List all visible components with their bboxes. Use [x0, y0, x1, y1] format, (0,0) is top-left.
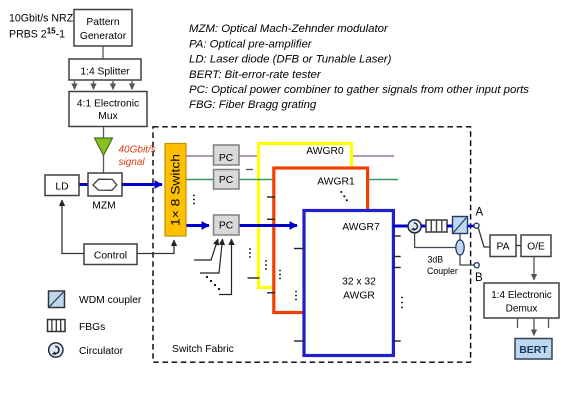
svg-text:PC: Optical power combiner to: PC: Optical power combiner to gather sig… — [189, 84, 529, 96]
switch U1 1x8 — [165, 144, 186, 237]
wire purple from switch through PC to AWGR0 — [186, 155, 394, 157]
svg-text:A: A — [476, 207, 484, 219]
wire green from switch through PC to AWGR1 — [186, 179, 398, 181]
wire control to LD — [62, 200, 84, 254]
wire PA to O/E — [516, 245, 521, 247]
splitter box 1:4 — [69, 59, 141, 80]
svg-text:PA: Optical pre-amplifier: PA: Optical pre-amplifier — [189, 38, 313, 50]
svg-text:PA: PA — [497, 242, 510, 253]
3dB coupler ellipse — [456, 240, 464, 255]
circulator — [408, 220, 421, 233]
wire pattern generator to splitter — [102, 46, 104, 59]
wire O/E to demux (arrow) — [533, 257, 535, 281]
AWGR0 box — [259, 144, 352, 288]
input ticks on AWGR7 left — [294, 248, 305, 250]
svg-text:PC: PC — [219, 221, 234, 232]
svg-text:AWGR1: AWGR1 — [317, 177, 355, 188]
AWGR1 box — [274, 168, 368, 313]
node input ticks on AWGR1 — [267, 196, 275, 198]
svg-text:MZM: MZM — [92, 201, 115, 212]
svg-text:O/E: O/E — [527, 242, 545, 253]
svg-text:Generator: Generator — [80, 31, 127, 42]
control box — [84, 244, 137, 265]
ellipsis dots left of AWGR7 — [295, 291, 297, 301]
ellipsis dots right of switch — [193, 195, 195, 205]
FBG F1 — [426, 220, 447, 232]
svg-text:BERT: BERT — [519, 344, 548, 356]
wire control to switch — [137, 240, 174, 254]
svg-text:AWGR0: AWGR0 — [306, 146, 344, 157]
wire demux to BERT (arrow) — [533, 318, 535, 336]
wire WDM down to 3dB coupler — [459, 234, 461, 241]
WDM coupler W1 — [453, 217, 468, 234]
arrows splitter to mux — [74, 81, 76, 90]
demux output stub left — [517, 318, 519, 328]
svg-text:Control: Control — [94, 250, 127, 261]
pattern generator box — [74, 10, 132, 47]
svg-text:FBGs: FBGs — [79, 322, 105, 333]
svg-text:LD: LD — [55, 181, 68, 192]
wire WDM to node A — [468, 225, 474, 228]
switch fabric dashed boundary — [153, 127, 471, 362]
svg-text:FBG: Fiber Bragg grating: FBG: Fiber Bragg grating — [189, 99, 317, 111]
svg-text:4:1 Electronic: 4:1 Electronic — [77, 98, 139, 109]
svg-text:BERT: Bit-error-rate tester: BERT: Bit-error-rate tester — [189, 69, 322, 81]
electronic mux box 4:1 — [69, 92, 147, 127]
svg-text:Demux: Demux — [506, 303, 538, 314]
BERT box — [515, 339, 552, 360]
PA box — [490, 235, 516, 257]
wire blue 40G signal from switch through PC3 to AWGR7 — [186, 224, 209, 227]
ellipsis dots left of AWGR0 — [249, 248, 251, 258]
output ticks on AWGR7 right — [393, 235, 401, 237]
svg-text:AWGR7: AWGR7 — [342, 222, 380, 233]
svg-text:PC: PC — [219, 175, 234, 186]
wire circulator down to 3dB coupler — [415, 233, 456, 248]
ellipsis dots left of AWGR1 — [265, 260, 267, 270]
wire MZM to switch (blue arrow) — [122, 183, 162, 186]
svg-text:40Gbit/s: 40Gbit/s — [119, 145, 156, 156]
svg-text:Coupler: Coupler — [427, 266, 458, 276]
legend circulator icon — [49, 343, 63, 357]
svg-text:32 x 32: 32 x 32 — [342, 277, 376, 288]
svg-text:1× 8 Switch: 1× 8 Switch — [171, 154, 183, 226]
svg-text:1:4 Splitter: 1:4 Splitter — [80, 66, 130, 77]
dotted diagonal near PC3 inputs — [206, 276, 220, 290]
svg-text:PC: PC — [219, 153, 234, 164]
wire FBG to WDM coupler (blue) — [447, 225, 453, 228]
demux box 1:4 — [484, 283, 559, 318]
demux output stub right — [548, 318, 550, 328]
svg-text:Circulator: Circulator — [79, 346, 124, 357]
svg-text:WDM coupler: WDM coupler — [79, 295, 142, 306]
svg-text:MZM: Optical Mach-Zehnder modu: MZM: Optical Mach-Zehnder modulator — [189, 23, 389, 35]
PC3 box — [214, 215, 240, 235]
legend FBG icon — [48, 320, 66, 332]
svg-text:LD: Laser diode (DFB or Tunabl: LD: Laser diode (DFB or Tunable Laser) — [189, 54, 392, 66]
svg-text:B: B — [475, 272, 483, 284]
tick right of PC2 — [246, 169, 253, 171]
PC2 box — [214, 170, 240, 190]
node A — [474, 223, 479, 228]
dots below AWGR1 — [340, 191, 342, 193]
MZM modulator box — [88, 173, 122, 196]
LD box — [45, 175, 79, 196]
amplifier triangle (green) — [95, 138, 113, 156]
svg-text:Pattern: Pattern — [86, 17, 119, 28]
wire circulator to FBG (blue) — [421, 225, 426, 228]
svg-text:AWGR: AWGR — [343, 291, 375, 302]
AWGR7 box (32x32) — [304, 211, 393, 356]
PC1 box — [214, 145, 240, 165]
node B — [474, 263, 479, 268]
svg-text:Switch Fabric: Switch Fabric — [172, 344, 234, 355]
wire A lever to PA — [478, 228, 490, 247]
input arrows to PC3 from other ports — [194, 239, 218, 260]
wire mux to MZM — [103, 127, 105, 173]
wire coupler to node B — [460, 255, 474, 265]
legend WDM coupler icon — [49, 291, 65, 308]
svg-text:10Gbit/s NRZ: 10Gbit/s NRZ — [9, 13, 74, 25]
svg-text:Mux: Mux — [98, 111, 118, 122]
O/E box — [521, 235, 551, 257]
svg-text:signal: signal — [119, 157, 146, 168]
svg-text:PRBS 215-1: PRBS 215-1 — [9, 27, 65, 41]
ellipsis dots right of AWGR7 — [401, 297, 403, 309]
wire LD to MZM (blue) — [79, 183, 88, 186]
node input tick on AWGR0 — [248, 277, 260, 279]
svg-text:3dB: 3dB — [428, 255, 444, 265]
ellipsis dots right of AWGR1 edge — [279, 270, 281, 280]
wire AWGR7 to circulator (blue) — [393, 225, 408, 228]
svg-text:1:4 Electronic: 1:4 Electronic — [491, 290, 552, 301]
